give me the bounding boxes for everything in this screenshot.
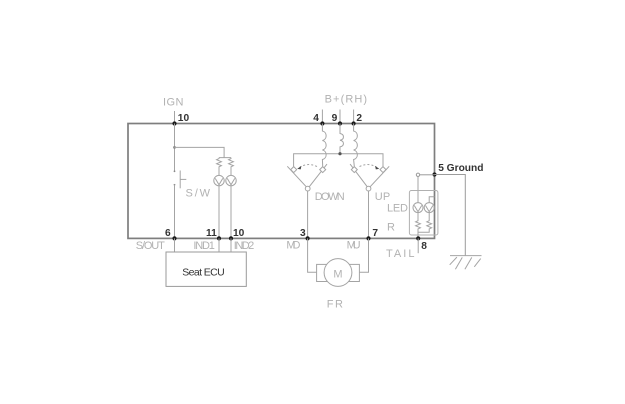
svg-text:LED: LED [387, 203, 408, 215]
wire pin 3 to motor [308, 238, 317, 272]
svg-text:10: 10 [178, 113, 190, 124]
svg-text:IND1: IND1 [193, 240, 215, 252]
pin 9 label [332, 113, 338, 124]
svg-text:11: 11 [206, 228, 217, 239]
relay coil wire pin 9 (squiggle) [340, 124, 343, 154]
node 10 (bottom) junction dot [229, 236, 233, 240]
node 4 junction dot [320, 121, 324, 125]
svg-text:2: 2 [356, 113, 362, 124]
resistor R right [418, 213, 432, 233]
svg-text:FR: FR [327, 298, 343, 310]
wire relay UP to pin 7 [368, 191, 370, 238]
wire IND1 to pin 11 [218, 186, 220, 239]
switch S/W label [186, 188, 211, 200]
wire pin 10 to Seat ECU [230, 238, 232, 252]
pin 4 label [313, 113, 319, 124]
node 2 junction dot [352, 121, 356, 125]
svg-text:UP: UP [375, 191, 391, 203]
wire IGN feed down to switch [174, 124, 176, 172]
node IGN label [163, 97, 184, 109]
terminal circle LED feed [416, 173, 419, 176]
ground [450, 256, 482, 270]
pin 3 label [300, 228, 306, 239]
node 5 Ground junction dot [432, 172, 436, 176]
node 3 junction dot [306, 236, 310, 240]
node IND2 label [234, 240, 255, 252]
node branch dot to indicators [173, 146, 176, 149]
svg-text:M: M [333, 268, 342, 280]
node 11 junction dot [217, 236, 221, 240]
svg-text:10: 10 [233, 228, 245, 239]
svg-text:Seat ECU: Seat ECU [182, 267, 225, 279]
svg-text:S/W: S/W [186, 188, 211, 200]
wire pin 6 to Seat ECU [174, 238, 176, 252]
resistor R left [416, 213, 421, 239]
relay DOWN label [315, 191, 345, 203]
pin 8 label [421, 241, 427, 252]
wire terminal to node 5 [420, 174, 435, 176]
relay coil wire pin 2 (squiggle) [354, 124, 358, 167]
lamp IND1 [214, 175, 224, 185]
pin 2 label [356, 113, 362, 124]
resistor IND2 feed [229, 158, 234, 176]
lamp LED left [413, 203, 423, 213]
Seat ECU box [166, 252, 246, 286]
svg-text:R: R [387, 221, 395, 233]
node 10 junction dot [172, 121, 176, 125]
node R label [387, 221, 395, 233]
node 7 junction dot [366, 236, 370, 240]
lamp LED right [424, 203, 434, 213]
svg-text:3: 3 [300, 228, 306, 239]
relay UP label [375, 191, 391, 203]
svg-text:MU: MU [347, 240, 361, 252]
wire pin 7 to motor [359, 238, 368, 272]
node MU label [347, 240, 361, 252]
node bus junction dot (pin 9) [338, 152, 341, 155]
pin 6 label [165, 228, 171, 239]
svg-text:7: 7 [372, 228, 378, 239]
svg-text:IGN: IGN [163, 97, 184, 109]
relay coil wire pin 4 (squiggle) [322, 124, 326, 167]
wire relay DOWN to pin 3 [307, 191, 309, 238]
wire TAIL stub [417, 238, 419, 253]
pin 4 tick [321, 110, 323, 124]
svg-text:5 Ground: 5 Ground [438, 163, 483, 174]
relay UP [350, 164, 389, 191]
node TAIL label [386, 248, 415, 260]
node 5 Ground label [438, 163, 483, 174]
wire switch to pin 6 [174, 185, 176, 239]
motor FR label [327, 298, 343, 310]
svg-text:8: 8 [421, 241, 427, 252]
pin 10 tick (IGN) [174, 111, 176, 124]
wire to chassis ground [435, 175, 466, 256]
wire branch to indicator resistors [175, 147, 232, 157]
pin 11 label [206, 228, 217, 239]
wire IND2 to pin 10 [230, 186, 232, 239]
svg-text:4: 4 [313, 113, 319, 124]
node LED label [387, 203, 408, 215]
svg-text:B+(RH): B+(RH) [325, 94, 368, 106]
motor M (FR) [317, 259, 360, 287]
pin 7 label [372, 228, 378, 239]
wire relay bus [294, 154, 383, 167]
svg-text:DOWN: DOWN [315, 191, 345, 203]
pin 10 bottom label [233, 228, 245, 239]
svg-text:TAIL: TAIL [386, 248, 415, 260]
svg-text:6: 6 [165, 228, 171, 239]
svg-text:9: 9 [332, 113, 338, 124]
node 8 junction dot [416, 236, 420, 240]
node IND1 label [193, 240, 215, 252]
svg-text:MD: MD [286, 240, 300, 252]
pin 2 tick [353, 110, 355, 124]
relay DOWN [287, 164, 327, 191]
pin 10 label [178, 113, 190, 124]
node 9 junction dot [338, 121, 342, 125]
svg-text:S/OUT: S/OUT [136, 240, 165, 252]
wire terminal down to LED lamp [417, 177, 419, 203]
LED / TAIL box [409, 191, 438, 236]
wire rail feed to right lamp [429, 197, 434, 203]
switch S/W [174, 170, 187, 188]
pin 9 tick [339, 110, 341, 124]
resistor IND1 feed [217, 158, 222, 176]
svg-text:IND2: IND2 [234, 240, 255, 252]
node S/OUT label [136, 240, 165, 252]
main power loop wire [128, 124, 435, 239]
wire pin 11 to Seat ECU [218, 238, 220, 252]
node MD label [286, 240, 300, 252]
node 6 junction dot [172, 236, 176, 240]
node B+(RH) label [325, 94, 368, 106]
lamp IND2 [226, 175, 236, 185]
